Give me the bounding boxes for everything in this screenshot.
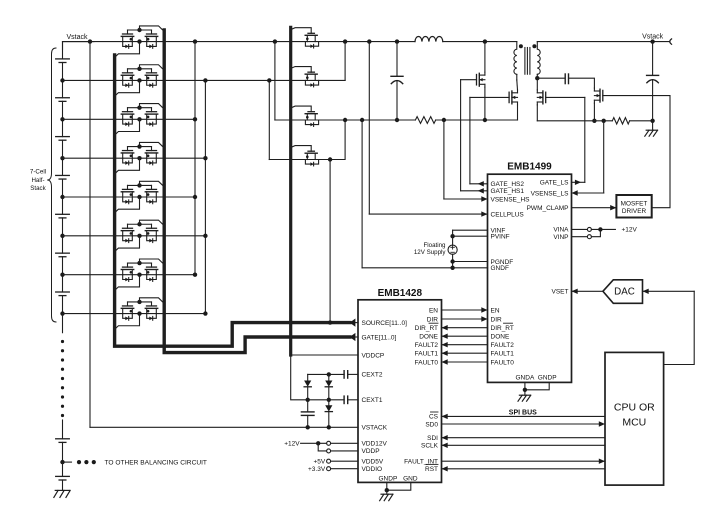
svg-text:CEXT1: CEXT1	[362, 397, 383, 404]
battery cell B1	[56, 42, 70, 81]
transformer T1 core	[525, 48, 530, 75]
wire GATE_LS pin	[572, 180, 585, 185]
wire row 1 (cell tap 1 rail)	[63, 41, 416, 43]
label EMB1499	[507, 161, 552, 172]
wire GNDP stub	[525, 382, 549, 389]
wire GNDP stub U2	[386, 482, 388, 490]
wire gate bar pair 7	[128, 261, 152, 267]
capacitor C2	[565, 74, 568, 84]
IC U2 EMB1428	[358, 300, 442, 483]
node ground rail junction	[650, 119, 654, 123]
node Vstack right junction	[650, 39, 654, 43]
wire VINF pin	[453, 229, 488, 231]
wire Q_LS gate	[546, 96, 585, 98]
svg-text:EMB1499: EMB1499	[507, 161, 552, 172]
MOSFET Q_HS2 (primary switch)	[509, 90, 517, 105]
svg-text:CPU OR: CPU OR	[614, 401, 655, 413]
wire cap C2 to Q_D	[569, 78, 595, 88]
connector VDDP	[327, 449, 331, 453]
svg-text:SDI: SDI	[427, 435, 438, 442]
wire VINP join	[591, 229, 600, 236]
wire VINP pin	[572, 236, 588, 238]
wire source route pair 5	[115, 197, 140, 213]
switch pair Q1A (left FET)	[121, 34, 133, 48]
svg-text:VSET: VSET	[552, 289, 569, 296]
wire gate route pair 1	[140, 26, 165, 32]
overline DIR_RT U2	[429, 322, 438, 324]
node source pair 8	[137, 311, 141, 315]
label Vstack right	[642, 34, 664, 41]
switch pair Q8A (left FET)	[121, 306, 133, 320]
wire to stack ground	[62, 480, 64, 490]
phase dot primary	[519, 44, 523, 48]
wire Q_HS2 drain	[516, 74, 519, 90]
wire CELLPLUS riser	[368, 42, 370, 215]
wire VDDCP drop	[291, 355, 308, 400]
svg-text:VSENSE_LS: VSENSE_LS	[531, 190, 570, 197]
wire VDDP drop	[318, 443, 326, 451]
wire row 3	[63, 118, 196, 120]
wire gate tap Q11	[291, 106, 312, 112]
battery cell B6	[56, 236, 70, 275]
wire VDDCP pin	[291, 354, 358, 356]
wire rail2 right	[436, 119, 518, 121]
wire SDI to CPU	[442, 435, 606, 440]
switch pair Q5B (right FET)	[145, 189, 157, 203]
wire CELLPLUS pin	[369, 211, 487, 216]
wire to bottom cell	[62, 462, 64, 476]
wire VSTACK riser	[89, 42, 91, 428]
wire PWM_CLAMP pin	[572, 205, 617, 210]
wire CPU to DAC	[664, 291, 695, 364]
wire GATE_HS1 pin	[461, 188, 488, 193]
wire Q12 drop to SOURCE bus	[328, 160, 332, 325]
svg-text:DAC: DAC	[614, 287, 635, 298]
wire VINA pin	[572, 228, 588, 230]
connector VINA	[587, 227, 591, 231]
resistor R1	[415, 117, 435, 124]
wire DIR_RT U2-U1	[442, 325, 488, 330]
svg-text:VDD5V: VDD5V	[362, 459, 384, 466]
wire row 8	[63, 313, 206, 315]
svg-text:VDD12V: VDD12V	[362, 441, 388, 448]
svg-text:DIR_RT: DIR_RT	[491, 325, 514, 332]
svg-text:FAULT1: FAULT1	[415, 351, 439, 358]
svg-text:RST: RST	[425, 466, 438, 473]
inductor L1	[415, 36, 443, 41]
wire GATE[11..0] bus	[164, 30, 358, 353]
wire to cap C2	[537, 77, 565, 79]
wire GND stub U2	[387, 482, 411, 490]
wire gate bar pair 2	[128, 67, 152, 73]
wire VSTACK pin	[90, 425, 358, 429]
wire source route pair 4	[115, 158, 140, 174]
connector VDD12V	[327, 441, 331, 445]
block CPU OR MCU	[605, 352, 664, 485]
capacitor C1 (polarized)	[391, 42, 403, 123]
svg-text:SCLK: SCLK	[421, 443, 439, 450]
node secondary-cap junction	[535, 76, 539, 80]
svg-text:7-Cell: 7-Cell	[30, 169, 46, 176]
node source pair 7	[137, 273, 141, 277]
junctions bus A	[193, 39, 197, 277]
node cap C1 top	[395, 39, 399, 43]
label CPU OR MCU	[614, 401, 655, 428]
wire FAULT0 U2-U1	[442, 359, 488, 364]
connector VDD5V	[327, 459, 331, 463]
svg-text:VDDP: VDDP	[362, 448, 380, 455]
svg-text:VSENSE_HS: VSENSE_HS	[491, 196, 531, 203]
node CEXT1 junction	[327, 398, 331, 402]
wire gate bar pair 6	[128, 222, 152, 228]
node source pair 5	[137, 195, 141, 199]
wire source route pair 2	[115, 80, 140, 96]
node VSENSE_HS riser junction	[442, 118, 446, 122]
svg-text:DONE: DONE	[491, 334, 510, 341]
wire Q_D gate route	[603, 96, 670, 208]
node Q12 drop junction	[328, 157, 332, 161]
wire row 4	[63, 157, 206, 159]
wire source route pair 6	[115, 236, 140, 252]
switch pair Q7A (left FET)	[121, 267, 133, 281]
svg-text:Half-: Half-	[31, 177, 44, 184]
wire VDDIO to U2	[331, 468, 358, 470]
svg-text:EMB1428: EMB1428	[378, 288, 423, 299]
wire DAC input	[643, 289, 695, 294]
svg-text:Vstack: Vstack	[66, 34, 88, 41]
node GNDF riser junction	[360, 118, 364, 122]
wire rail2 left	[275, 119, 416, 121]
label SPI BUS	[509, 409, 537, 416]
wire GATE_HS2 pin	[470, 181, 488, 186]
wire SOURCE[11..0] bus	[115, 55, 358, 346]
wire GNDF pin	[362, 267, 487, 269]
battery cell B8 (lower)	[56, 439, 70, 462]
svg-text:PWM_CLAMP: PWM_CLAMP	[527, 205, 569, 212]
wire GNDA stub	[524, 382, 526, 389]
transformer T1 primary	[514, 42, 517, 75]
wire feed row2 to Q12	[267, 78, 271, 159]
wire row 6	[63, 235, 206, 237]
node Vstack (left stack top)	[66, 34, 88, 41]
overline RST U2	[426, 463, 438, 465]
node to-other-balancing tap	[60, 460, 64, 464]
wire to lower cells	[62, 420, 64, 439]
transformer T1 secondary	[537, 42, 540, 75]
wire PVINF pin	[450, 234, 487, 238]
wire GATE_LS riser	[584, 97, 586, 182]
ground secondary rail	[645, 130, 658, 136]
wire VDD12V to U2	[331, 442, 358, 444]
labels U2 left pins	[362, 320, 408, 473]
battery tap junctions	[60, 78, 64, 315]
node source pair 1	[137, 39, 141, 43]
svg-text:DIR_RT: DIR_RT	[415, 325, 438, 332]
node source pair 3	[137, 117, 141, 121]
svg-text:EN: EN	[491, 307, 500, 314]
svg-text:DRIVER: DRIVER	[622, 208, 647, 215]
MOSFET Q_LS (secondary switch)	[537, 90, 545, 105]
wire gate tap Q12	[291, 146, 312, 152]
wire row 2	[63, 79, 346, 81]
node VSENSE_LS riser junction	[602, 119, 606, 123]
node Vstack riser junction	[88, 39, 92, 43]
svg-text:CS: CS	[429, 414, 439, 421]
wire rail1 to transformer	[443, 41, 517, 43]
switch pair Q5A (left FET)	[121, 189, 133, 203]
wire VSENSE_HS pin	[444, 196, 488, 201]
wire SCLK to CPU	[442, 443, 606, 448]
stack switch Q9	[305, 33, 318, 48]
wire VSET pin	[572, 289, 603, 294]
brace half-stack	[47, 48, 56, 322]
labels U1 GNDA GNDP	[516, 374, 557, 381]
wire feed row1 to Q11	[273, 39, 277, 120]
switch pair Q2A (left FET)	[121, 73, 133, 87]
wire EN U2-U1	[442, 307, 488, 312]
svg-text:Stack: Stack	[30, 185, 46, 192]
switch pair Q6B (right FET)	[145, 228, 157, 242]
svg-text:SPI BUS: SPI BUS	[509, 409, 537, 416]
wire gate route pair 7	[140, 259, 165, 265]
labels U1 right pins	[527, 180, 570, 296]
wire PGNDF pin	[453, 261, 488, 263]
wire gate route pair 6	[140, 220, 165, 226]
wire GNDP ground stub	[386, 490, 388, 494]
diode D2	[325, 374, 332, 399]
svg-text:TO OTHER BALANCING CIRCUIT: TO OTHER BALANCING CIRCUIT	[105, 459, 207, 466]
wire secondary bottom	[536, 74, 538, 90]
switch pair Q6A (left FET)	[121, 228, 133, 242]
switch pair Q7B (right FET)	[145, 267, 157, 281]
battery cell B5	[56, 197, 70, 236]
svg-text:MOSFET: MOSFET	[621, 201, 648, 208]
wire gate route pair 8	[140, 298, 165, 304]
pin arrow GATE[11..0]	[350, 333, 356, 341]
svg-text:+3.3V: +3.3V	[308, 466, 326, 473]
svg-text:SD0: SD0	[425, 421, 438, 428]
svg-text:GATE_HS1: GATE_HS1	[491, 188, 525, 195]
switch pair Q8B (right FET)	[145, 306, 157, 320]
wire VDDP to U2	[331, 450, 358, 452]
svg-text:FAULT2: FAULT2	[491, 342, 515, 349]
stack switch Q12	[305, 151, 318, 166]
labels U2 GNDP GND	[379, 475, 418, 482]
overline DIR_RT U1	[504, 322, 513, 324]
wire CEXT2 net	[308, 372, 344, 376]
diode D3	[325, 400, 332, 428]
wire VSENSE_LS riser	[603, 121, 605, 193]
wire Q_HS2 source	[517, 105, 519, 120]
switch pair Q3B (right FET)	[145, 112, 157, 126]
MOSFET Q_D (driver FET)	[594, 88, 602, 103]
dotted stack continuation	[61, 340, 64, 417]
wire row 7	[63, 274, 196, 276]
wire VDD5V to U2	[331, 460, 358, 462]
wire source route pair 1	[115, 42, 140, 58]
capacitor CEXT1	[344, 396, 358, 403]
wire GNDF riser	[361, 120, 363, 268]
label +12V right	[622, 227, 638, 234]
node source pair 4	[137, 156, 141, 160]
label +3.3V	[308, 466, 326, 473]
connector VDDIO	[327, 467, 331, 471]
wire Q_D source	[592, 103, 596, 123]
svg-text:FAULT0: FAULT0	[491, 359, 515, 366]
wire DIR U2-U1	[442, 316, 488, 321]
wire Q_HS1 drain	[483, 39, 487, 72]
wire CS to CPU	[442, 414, 606, 419]
battery cell B7	[56, 275, 70, 314]
wire FAULT_INT to CPU	[442, 459, 606, 464]
ground U2	[380, 494, 393, 501]
svg-text:+12V: +12V	[622, 227, 638, 234]
svg-text:Vstack: Vstack	[642, 34, 664, 41]
svg-text:PVINF: PVINF	[491, 234, 510, 241]
overline CS U2	[431, 411, 439, 413]
wire Q10 riser to rail1	[343, 39, 347, 80]
wire supply bottom	[450, 254, 454, 270]
svg-text:Floating: Floating	[423, 242, 446, 249]
connector VINP	[587, 235, 591, 239]
wire gate route pair 4	[140, 142, 165, 148]
wire source route pair 7	[115, 275, 140, 291]
wire GATE_HS2 riser	[469, 97, 471, 183]
wire gate bar pair 8	[128, 300, 152, 306]
battery cell B2	[56, 80, 70, 119]
label 7-Cell Half-Stack	[30, 169, 47, 192]
block MOSFET DRIVER	[616, 195, 651, 218]
MOSFET Q_HS1 (upper)	[477, 72, 485, 87]
switch pair Q1B (right FET)	[145, 34, 157, 48]
switch pair Q2B (right FET)	[145, 73, 157, 87]
svg-text:MCU: MCU	[622, 416, 646, 428]
svg-text:DIR: DIR	[427, 316, 439, 323]
wire VDD12V pin	[301, 441, 327, 445]
node source pair 6	[137, 234, 141, 238]
label TO OTHER BALANCING CIRCUIT	[105, 459, 207, 466]
ground GNDA	[518, 395, 531, 401]
wire gate bar pair 1	[128, 28, 152, 34]
wire VDDCP gate bus	[289, 27, 292, 355]
wire gate bar pair 5	[128, 183, 152, 189]
svg-text:GND: GND	[403, 475, 418, 482]
wire gate route pair 3	[140, 104, 165, 110]
wire Q_HS1 source	[483, 87, 487, 122]
svg-text:GATE[11..0]: GATE[11..0]	[362, 334, 397, 341]
svg-text:GATE_LS: GATE_LS	[540, 180, 569, 187]
wire gate bar pair 3	[128, 106, 152, 112]
junctions bus B	[203, 78, 207, 315]
svg-text:VINA: VINA	[553, 227, 569, 234]
svg-text:VINP: VINP	[553, 234, 568, 241]
wire Q_HS1 gate	[461, 79, 477, 81]
wire GATE_HS1 riser	[460, 80, 462, 191]
wire bus B (even taps)	[204, 80, 206, 313]
labels U2 right pins	[404, 307, 439, 473]
wire CEXT1 net	[308, 399, 344, 401]
svg-text:GATE_HS2: GATE_HS2	[491, 181, 525, 188]
node source pair 2	[137, 78, 141, 82]
wire stack below row 8	[62, 314, 64, 333]
svg-text:+5V: +5V	[313, 459, 325, 466]
wire VSENSE_HS riser	[443, 120, 445, 199]
stack switch Q10	[305, 72, 318, 87]
wire ground stub	[652, 121, 654, 130]
phase dot secondary	[532, 44, 536, 48]
svg-text:VSTACK: VSTACK	[362, 425, 388, 432]
wire gate bar pair 4	[128, 144, 152, 150]
ground stack bottom	[54, 490, 70, 497]
wire secondary top rail	[537, 41, 670, 43]
wire gate tap Q9	[291, 28, 312, 34]
battery cell B9 (bottom)	[56, 476, 70, 480]
wire gate tap Q10	[291, 67, 312, 73]
floating 12V supply V1	[448, 245, 457, 254]
switch pair Q4A (left FET)	[121, 151, 133, 165]
svg-text:VDDIO: VDDIO	[362, 466, 383, 473]
svg-text:GNDA: GNDA	[516, 374, 535, 381]
svg-text:CEXT2: CEXT2	[362, 372, 383, 379]
svg-text:GNDP: GNDP	[379, 475, 398, 482]
wire Q_LS source	[536, 105, 538, 121]
node CELLPLUS riser	[367, 39, 371, 43]
wire VSENSE_LS pin	[572, 190, 604, 195]
label +5V	[313, 459, 325, 466]
wire balancing stub	[63, 461, 72, 463]
svg-text:+12V: +12V	[284, 441, 300, 448]
IC U1 EMB1499	[488, 174, 572, 382]
capacitor C3 (polarized)	[647, 42, 659, 121]
wire FAULT1 U2-U1	[442, 351, 488, 356]
svg-text:FAULT0: FAULT0	[415, 359, 439, 366]
node GNDP junction U2	[385, 488, 389, 492]
svg-text:DIR: DIR	[491, 316, 503, 323]
wire FAULT2 U2-U1	[442, 342, 488, 347]
wire Q_HS2 gate	[470, 96, 509, 98]
svg-text:GNDF: GNDF	[491, 265, 509, 272]
resistor R2	[612, 118, 629, 124]
battery cell B3	[56, 119, 70, 158]
label MOSFET DRIVER	[621, 201, 648, 216]
wire source route pair 3	[115, 119, 140, 135]
wire row 5	[63, 196, 196, 198]
node GNDA junction	[523, 388, 527, 392]
wire RST to CPU	[442, 466, 606, 471]
label Floating 12V Supply	[414, 242, 447, 256]
svg-text:VDDCP: VDDCP	[362, 352, 385, 359]
wire SD0 to CPU	[442, 421, 606, 426]
wire VINA to +12V	[591, 227, 615, 231]
wire rail2b right	[630, 120, 653, 122]
wire GNDA ground stub	[524, 390, 526, 395]
svg-text:FAULT2: FAULT2	[415, 342, 439, 349]
wire supply top	[452, 230, 454, 245]
connector Vstack right	[670, 39, 672, 44]
wire gate route pair 5	[140, 181, 165, 187]
label +12V left	[284, 441, 300, 448]
svg-text:FAULT1: FAULT1	[491, 351, 515, 358]
switch pair Q3A (left FET)	[121, 112, 133, 126]
label DAC	[614, 287, 635, 298]
capacitor C4	[301, 400, 314, 428]
labels U1 left pins	[491, 181, 531, 366]
svg-text:DONE: DONE	[419, 334, 438, 341]
block DAC	[603, 280, 643, 304]
svg-text:12V Supply: 12V Supply	[414, 249, 447, 256]
diode D1	[304, 374, 311, 399]
wire gate route pair 2	[140, 65, 165, 71]
